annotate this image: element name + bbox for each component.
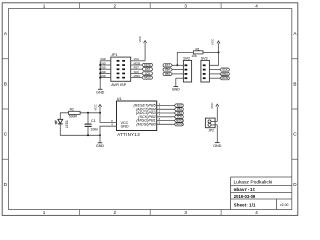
svg-text:VCC: VCC <box>211 38 215 45</box>
wire LED1 to bottom rail <box>60 124 100 136</box>
svg-text:1: 1 <box>43 210 46 215</box>
wire VCC to JP2 pin1 <box>216 107 218 122</box>
wire JP2 pin2 to ground <box>216 125 218 142</box>
svg-text:4: 4 <box>255 3 258 8</box>
JP2 pin stubs <box>211 120 217 122</box>
SV3 pads <box>203 64 206 79</box>
ground below JP1 <box>96 89 105 94</box>
frame row ticks right <box>292 59 298 160</box>
U1 right pin names <box>133 104 156 127</box>
connector SV2 body <box>183 60 191 82</box>
JP1 right pin name labels <box>134 57 141 78</box>
svg-text:RST: RST <box>177 103 183 107</box>
U1 left pin names <box>121 121 129 129</box>
wire VCC junction down to SV3 pin1 <box>209 52 218 65</box>
LED LED1 <box>55 119 69 128</box>
resistor R1 <box>194 51 204 54</box>
frame row labels right <box>293 31 297 187</box>
SV2 pads <box>185 64 188 79</box>
IC U1 body <box>117 101 157 131</box>
JP1 GND pin name labels <box>100 58 106 78</box>
svg-text:VCC: VCC <box>94 103 98 110</box>
svg-text:RST: RST <box>145 67 151 71</box>
svg-text:B: B <box>293 82 296 87</box>
junction dot C1 bottom <box>87 134 89 136</box>
svg-text:GND: GND <box>213 144 222 148</box>
wire SV2 pin4 to ground <box>175 78 177 86</box>
wire R1 right to VCC junction <box>203 51 219 53</box>
SV2 left pin wires <box>172 65 183 78</box>
wire GND rail <box>99 61 101 89</box>
svg-text:SCK: SCK <box>222 68 228 72</box>
wire R2 left to LED1 <box>60 113 68 120</box>
frame row labels left <box>4 31 8 187</box>
junction dot VCC rail / R2 C1 wire <box>99 112 101 114</box>
svg-text:SV3: SV3 <box>201 56 208 60</box>
connector SV3 body <box>201 60 210 82</box>
junction dot R1/VCC <box>218 51 220 53</box>
svg-text:4: 4 <box>255 210 258 215</box>
frame column labels top <box>43 3 259 8</box>
U1 right pin numbers <box>159 102 161 125</box>
svg-text:RST: RST <box>165 63 171 67</box>
frame row ticks left <box>2 59 8 160</box>
svg-text:SCK: SCK <box>145 71 151 75</box>
svg-text:Lukasz Podkalicki: Lukasz Podkalicki <box>234 179 273 185</box>
svg-text:PB4: PB4 <box>177 107 182 111</box>
JP1 pads left column <box>117 60 120 79</box>
wire U1 GND pin to ground <box>100 126 117 142</box>
net flag SCK (SV3 pin2) <box>220 68 229 72</box>
svg-text:SCK: SCK <box>134 70 140 74</box>
svg-text:3: 3 <box>184 210 187 215</box>
net flag RST (JP1) <box>142 67 153 71</box>
wire to VCC above JP1 <box>144 43 146 61</box>
U1 right pin wires <box>157 106 175 125</box>
junction dot bottom rail / GND <box>99 134 101 136</box>
frame column ticks top <box>79 3 221 9</box>
power VCC symbol (JP2) <box>210 102 219 109</box>
svg-text:C1: C1 <box>91 119 96 123</box>
junction dot SV2 pin1 <box>176 64 178 66</box>
JP2 pin circles <box>208 120 211 123</box>
svg-text:MOSI: MOSI <box>222 76 229 80</box>
svg-text:Sheet: 1/1: Sheet: 1/1 <box>234 203 256 208</box>
power VCC symbol (SV group) <box>211 38 221 52</box>
JP1 right pin wires <box>131 61 145 78</box>
svg-text:VCC: VCC <box>138 35 142 42</box>
svg-text:MOSI: MOSI <box>134 61 141 65</box>
net flag MOSI (SV3 pin4) <box>220 76 229 80</box>
svg-text:GND: GND <box>121 124 129 128</box>
title block <box>231 177 292 210</box>
net flag PB3 (SV2 pin3) <box>163 72 172 76</box>
svg-text:MISO: MISO <box>176 119 183 123</box>
svg-text:1: 1 <box>43 3 46 8</box>
wire VCC branch to R2 and C1 <box>80 112 100 114</box>
net flag MOSI (U1 pin5) <box>174 122 183 126</box>
svg-text:500R: 500R <box>69 115 78 119</box>
wire VCC down to U1 pin 8 <box>100 107 117 123</box>
svg-text:MISO: MISO <box>134 74 141 78</box>
JP1 pads right column <box>122 60 125 79</box>
net flag MISO (JP1) <box>142 76 153 80</box>
svg-text:10k: 10k <box>191 54 197 58</box>
ground below SV2 <box>172 87 181 92</box>
svg-text:v2.00: v2.00 <box>280 203 288 207</box>
resistor R2 <box>69 111 81 114</box>
frame inner border <box>9 9 292 210</box>
svg-text:PB3: PB3 <box>165 72 170 76</box>
JP1 left pin wires to GND rail <box>100 61 111 78</box>
svg-text:(MOSI)PB0: (MOSI)PB0 <box>136 122 156 126</box>
net flag PB4 (SV2 pin2) <box>163 68 172 72</box>
SV3 right pin wires <box>209 70 220 79</box>
capacitor C1 <box>85 113 92 136</box>
net flag SCK (U1 pin7) <box>174 115 183 119</box>
svg-text:VCC: VCC <box>210 102 214 109</box>
svg-text:AVR ISP: AVR ISP <box>111 82 126 87</box>
net flag MISO (U1 pin6) <box>174 119 183 123</box>
frame column labels bottom <box>43 210 259 215</box>
net flag SCK (JP1) <box>142 71 153 75</box>
svg-text:2: 2 <box>114 3 117 8</box>
svg-text:2019-03-09: 2019-03-09 <box>234 194 256 199</box>
svg-text:RST: RST <box>134 66 140 70</box>
svg-text:LED1: LED1 <box>65 120 69 128</box>
U1 left pin numbers <box>111 119 113 127</box>
junction dots on GND rail <box>99 64 101 79</box>
connector JP2 body <box>205 118 215 128</box>
svg-text:100n: 100n <box>90 128 98 132</box>
power VCC symbol (U1) <box>94 103 102 110</box>
svg-text:MISO: MISO <box>144 76 151 80</box>
svg-text:ATTINY13: ATTINY13 <box>117 132 140 137</box>
svg-text:GND: GND <box>96 144 105 148</box>
net flag RST (SV2 pin1) <box>163 63 172 67</box>
net flag PB5 (U1 pin1) <box>174 103 183 107</box>
net flag PB4 (U1 pin3) <box>174 107 183 111</box>
ground below U1 <box>96 143 105 148</box>
svg-text:GND: GND <box>172 88 181 92</box>
svg-text:PB4: PB4 <box>165 68 170 72</box>
svg-text:GND: GND <box>100 58 106 61</box>
svg-text:SCK: SCK <box>177 115 183 119</box>
svg-text:B: B <box>4 82 7 87</box>
net flag MISO (SV3 pin3) <box>220 72 229 76</box>
svg-text:VCC: VCC <box>134 57 140 61</box>
svg-text:2: 2 <box>114 210 117 215</box>
svg-text:MISO: MISO <box>222 72 229 76</box>
net flag MOSI (JP1) <box>142 63 153 67</box>
svg-text:MOSI: MOSI <box>144 63 151 67</box>
svg-text:mbavr-1t: mbavr-1t <box>234 187 256 193</box>
ground below JP2 <box>213 143 222 148</box>
wire R1 left to SV2 pin1 <box>177 52 193 65</box>
svg-text:JP1: JP1 <box>111 53 117 57</box>
connector JP1 body <box>111 57 131 81</box>
svg-text:PB3: PB3 <box>177 111 182 115</box>
power VCC symbol (JP1) <box>138 35 146 43</box>
svg-text:3: 3 <box>184 3 187 8</box>
net flag PB3 (U1 pin2) <box>174 111 183 115</box>
frame column ticks bottom <box>79 210 221 216</box>
svg-text:SV2: SV2 <box>183 56 190 60</box>
svg-text:GND: GND <box>96 90 105 94</box>
svg-text:MOSI: MOSI <box>176 122 183 126</box>
svg-text:JP2: JP2 <box>208 128 214 132</box>
junction dot C1 top <box>87 112 89 114</box>
